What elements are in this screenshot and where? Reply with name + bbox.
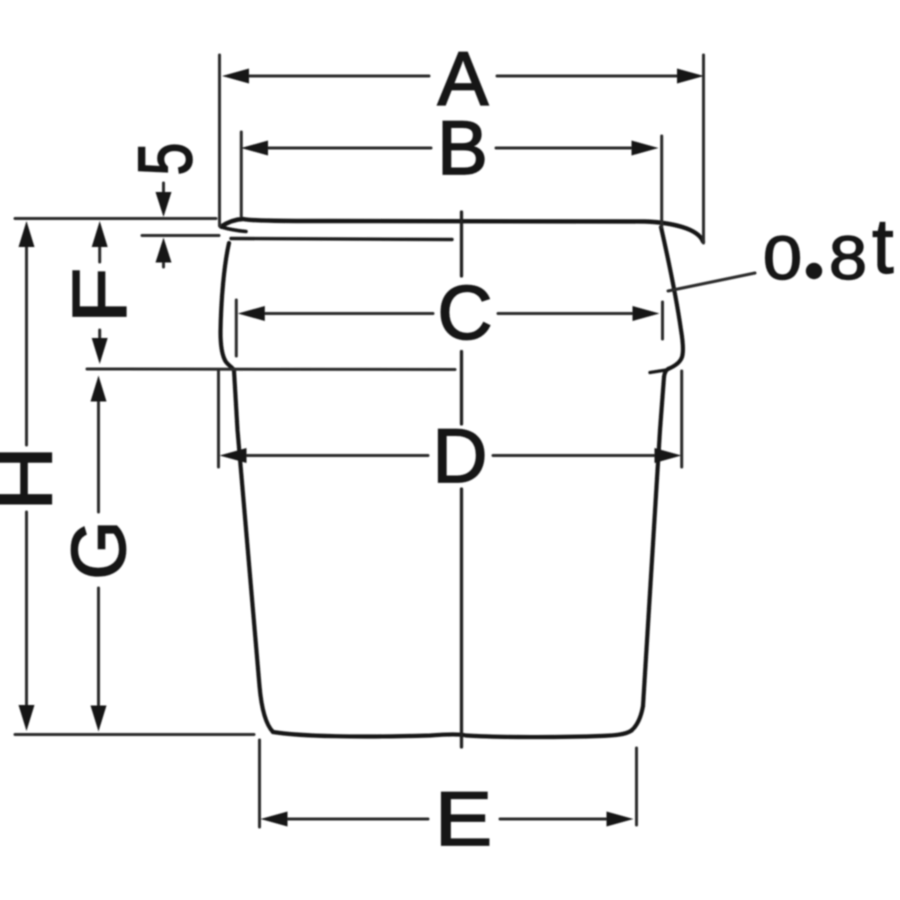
svg-text:0: 0 [763, 223, 802, 292]
arrowhead 5 down (upper) [156, 192, 172, 217]
dimension line A [248, 75, 678, 78]
part outline: bottom edge [273, 731, 632, 738]
part outline: bottom right corner [632, 706, 644, 731]
part outline: left wall lower taper [234, 371, 273, 733]
extension line: top (flange top level) [15, 217, 216, 220]
extension line: bottom level [15, 733, 254, 736]
extension line: E left [258, 740, 261, 827]
arrowhead C right [633, 306, 660, 321]
part outline: right notch inner step tick [650, 370, 666, 373]
svg-text:F: F [57, 268, 142, 324]
part outline: right wall upper section with notch bulge [661, 227, 683, 377]
leader line for 0.8t [668, 273, 755, 291]
part outline: flange left tip underside [221, 227, 246, 232]
svg-text:G: G [57, 520, 142, 579]
dimension line D [245, 454, 656, 457]
svg-text:E: E [435, 778, 492, 862]
arrowhead G down [91, 706, 107, 732]
dimension line C [264, 312, 634, 315]
svg-text:5: 5 [123, 143, 208, 176]
extension line: B right [660, 136, 663, 227]
svg-text:8: 8 [829, 223, 867, 292]
extension line: D left [217, 371, 220, 467]
dimension line 5 stems [162, 183, 165, 267]
arrowhead B right [632, 141, 659, 156]
extension line: A right [702, 55, 705, 243]
extension line: flange underside level [142, 234, 219, 237]
arrowhead H up [19, 221, 35, 247]
extension line: E right [635, 748, 638, 825]
extension line: A left [218, 55, 221, 226]
dimension line H [25, 246, 28, 705]
svg-text:D: D [433, 414, 488, 499]
part outline: flange underside internal edge (left half only) [231, 239, 452, 240]
part outline: flange top edge with right curled lip [221, 219, 703, 242]
extension line: D right [680, 371, 683, 467]
part outline: left wall upper section with notch [221, 243, 235, 371]
internal step edge line at F/G boundary [87, 368, 455, 372]
extension line: C left short [235, 300, 238, 356]
arrowhead D left [220, 448, 247, 463]
arrowhead F up [92, 221, 108, 247]
arrowhead G up [91, 376, 107, 402]
svg-text:t: t [872, 202, 894, 290]
dimension line G [97, 401, 100, 706]
center line [460, 212, 463, 747]
arrowhead C left [238, 306, 265, 321]
svg-text:H: H [0, 446, 68, 511]
svg-text:B: B [437, 106, 488, 191]
part outline: right wall lower taper [643, 377, 664, 706]
dimension line F [98, 247, 101, 338]
arrowhead F down [92, 338, 108, 364]
extension line: C right short [661, 302, 664, 339]
arrowhead E right [607, 812, 634, 827]
arrowhead B left [241, 141, 268, 156]
arrowhead D right [655, 448, 682, 463]
arrowhead 5 up (lower) [156, 238, 172, 263]
dimension line B [267, 147, 633, 150]
dimension line E [287, 818, 608, 821]
arrowhead A left [222, 69, 249, 84]
arrowhead E left [261, 812, 288, 827]
extension line: B left [240, 132, 243, 216]
svg-text:C: C [438, 271, 493, 356]
arrowhead H down [19, 705, 35, 731]
arrowhead A right [677, 69, 704, 84]
